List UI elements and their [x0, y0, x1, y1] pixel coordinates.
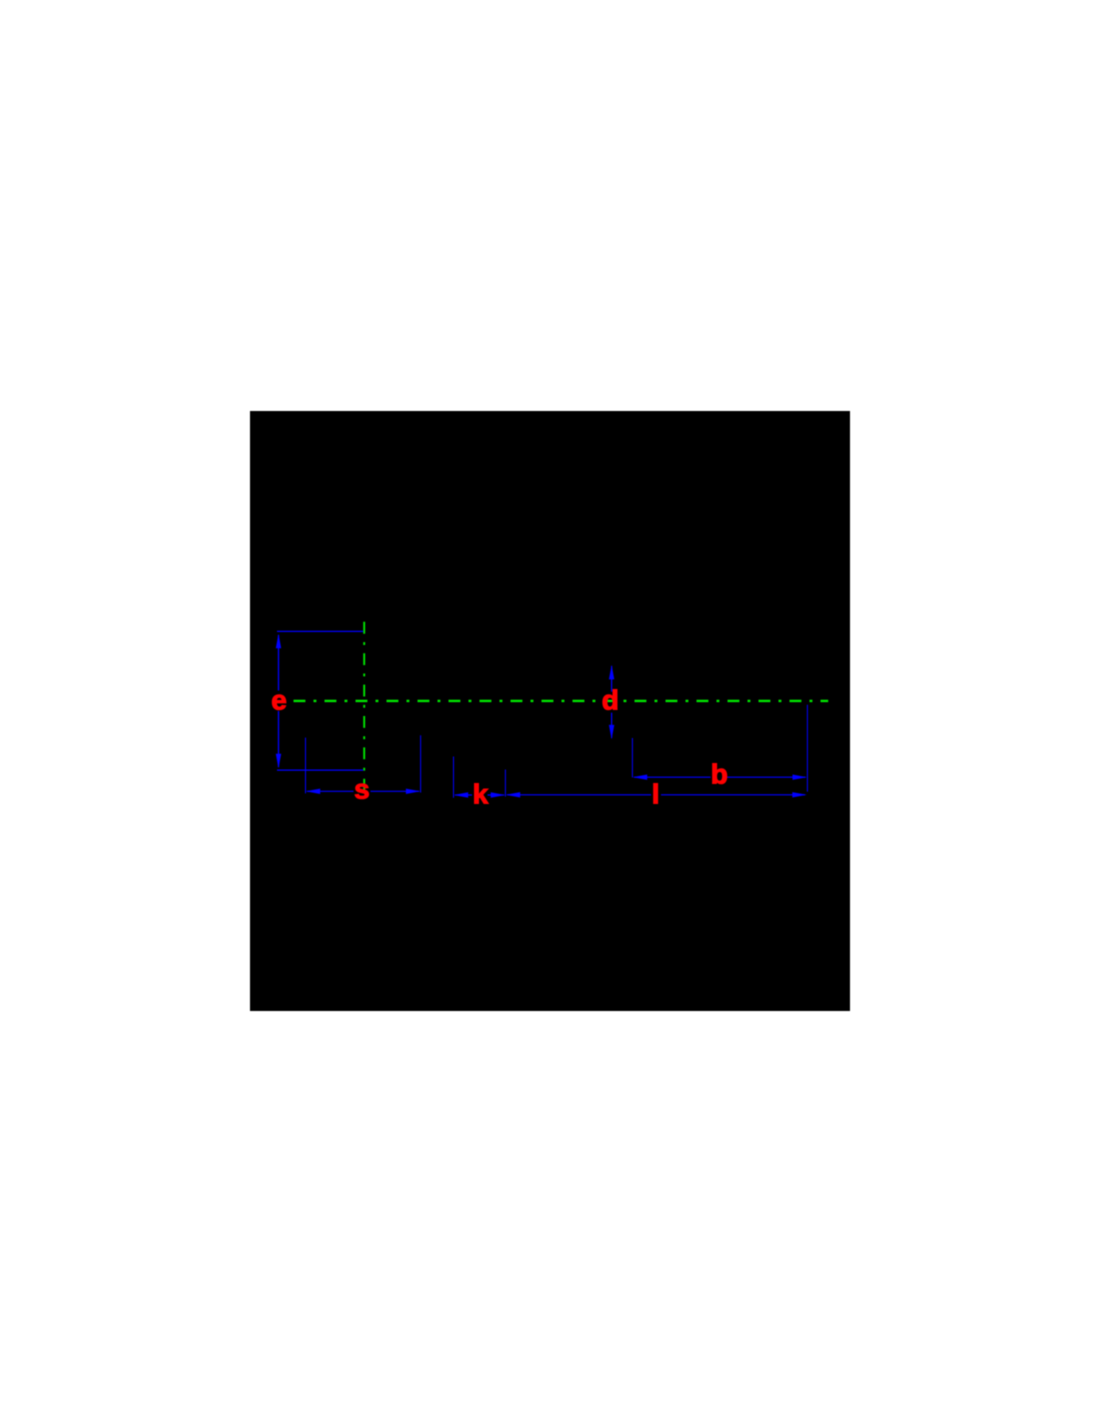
- horizontal centerline (green dash-dot axis): [294, 700, 829, 702]
- dimension s: line left segment: [307, 790, 354, 792]
- dimension k: line right segment: [488, 794, 505, 796]
- dimension l: line left segment: [507, 794, 651, 796]
- dimension b: left extension line: [631, 738, 633, 778]
- dimension k: line left segment: [455, 794, 472, 796]
- dimension k: right extension line: [504, 770, 506, 797]
- svg-text:e: e: [271, 684, 287, 715]
- dimension s: arrowhead right: [406, 789, 421, 794]
- dimension b: line left segment: [634, 776, 711, 778]
- dimension s: left extension line: [305, 738, 307, 794]
- dimension e: vertical dimension line lower segment: [278, 711, 280, 767]
- dimension s: line right segment: [371, 790, 420, 792]
- dimension s: right extension line: [420, 735, 422, 792]
- svg-text:d: d: [602, 684, 619, 715]
- svg-text:l: l: [652, 778, 660, 809]
- svg-text:b: b: [711, 759, 728, 790]
- svg-text:s: s: [354, 773, 370, 804]
- vertical centerline (green dash-dot axis of bolt head): [363, 622, 365, 791]
- dimension e: arrowhead down: [276, 754, 281, 769]
- dimension l: arrowhead right: [792, 792, 807, 797]
- dimension k: left extension line: [453, 757, 455, 798]
- dimension d: upper shaft: [611, 666, 613, 692]
- dimension s: arrowhead left: [306, 789, 321, 794]
- dimension e: vertical dimension line upper segment: [278, 635, 280, 691]
- dimension b: line right segment: [727, 776, 806, 778]
- dimension l: arrowhead left: [506, 792, 521, 797]
- dimension d: lower shaft: [611, 713, 613, 738]
- dimension b: arrowhead right: [793, 775, 808, 780]
- dimension d: arrowhead down: [609, 725, 614, 740]
- dimension b: right extension line: [806, 705, 808, 792]
- svg-text:k: k: [473, 778, 489, 809]
- dimension e: arrowhead up: [276, 634, 281, 649]
- dimension e: top extension line: [277, 630, 363, 632]
- dimension b: arrowhead left: [633, 775, 648, 780]
- dimension e: bottom extension line: [277, 769, 363, 771]
- dimension k: arrowhead right: [491, 792, 506, 797]
- dimension d: arrowhead up: [609, 665, 614, 680]
- dimension k: arrowhead left: [454, 792, 469, 797]
- dimension l: line right segment: [661, 794, 805, 796]
